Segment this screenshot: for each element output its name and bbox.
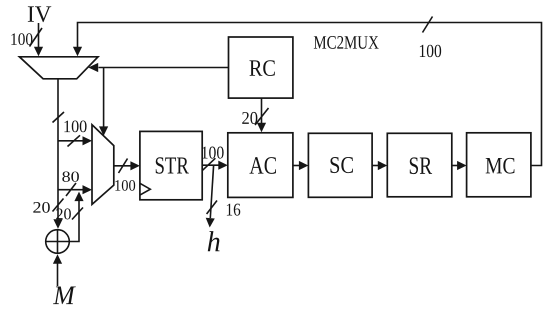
arrowhead IV into mux M1	[34, 47, 43, 57]
arrowhead SR into MC	[457, 161, 467, 170]
svg-text:100: 100	[10, 29, 33, 49]
xor gate X1	[46, 230, 70, 254]
svg-text:IV: IV	[27, 2, 52, 28]
arrowhead STR out into AC	[218, 161, 228, 170]
wire: RC to mux M1	[99, 67, 229, 69]
svg-text:20: 20	[242, 108, 259, 128]
arrowhead h branch	[206, 218, 215, 228]
svg-text:RC: RC	[249, 56, 276, 82]
svg-text:STR: STR	[154, 153, 189, 180]
wire: SC to SR	[372, 165, 378, 167]
svg-text:20: 20	[32, 200, 50, 217]
wire: STR to AC	[202, 164, 219, 166]
arrowhead into XOR top	[53, 219, 62, 229]
block SC	[308, 133, 372, 197]
svg-text:h: h	[207, 226, 221, 258]
svg-text:100: 100	[201, 142, 225, 162]
node slash 20 right	[72, 208, 83, 220]
wire: IV input	[38, 23, 40, 49]
block AC	[228, 133, 293, 198]
arrowhead branch into mux M2 top slant	[99, 126, 108, 135]
wire: RC to AC	[261, 98, 263, 123]
svg-text:MC: MC	[485, 153, 515, 179]
block RC	[229, 37, 293, 98]
arrowhead RC wire into mux M1 right slant	[88, 63, 98, 72]
arrowhead 80 into mux M2	[83, 185, 93, 194]
svg-text:M: M	[52, 280, 76, 310]
svg-text:20: 20	[55, 204, 71, 223]
arrowhead XOR out up into 80 wire	[74, 192, 83, 202]
svg-text:100: 100	[419, 42, 442, 62]
wire: top feedback MC2MUX	[78, 23, 542, 166]
arrowhead M into XOR bottom	[53, 254, 62, 263]
block SR	[387, 133, 452, 197]
node slash 20	[255, 108, 269, 125]
arrowhead 100 into mux M2	[83, 136, 93, 145]
arrowhead RC into AC	[257, 123, 266, 133]
node slash 20 left	[53, 199, 64, 212]
wire: SR to MC	[452, 165, 458, 167]
mux M2 (left trapezoid)	[92, 125, 114, 205]
svg-text:16: 16	[225, 199, 240, 219]
svg-text:AC: AC	[249, 153, 277, 180]
wire: mux M2 output to STR	[114, 165, 131, 167]
block MC	[467, 133, 531, 197]
node slash	[202, 158, 215, 171]
arrowhead mux M2 out into STR	[130, 161, 140, 170]
node slash	[119, 159, 128, 174]
svg-text:80: 80	[62, 169, 80, 186]
svg-text:MC2MUX: MC2MUX	[313, 33, 379, 54]
arrowhead feedback into mux M1	[73, 47, 82, 57]
node slash	[66, 183, 76, 196]
arrowhead SC into SR	[378, 161, 388, 170]
clock input triangle	[140, 183, 150, 195]
arrowhead AC into SC	[299, 161, 309, 170]
wire: 100 branch into mux M2	[58, 140, 83, 142]
wire: AC to SC	[293, 165, 300, 167]
wire: XOR output up into mux M2	[69, 201, 79, 242]
wire: branch down to mux M2 top	[103, 68, 105, 128]
wire: M input	[57, 264, 59, 287]
node IV slash	[30, 28, 43, 47]
node MC2MUX slash	[423, 17, 433, 33]
node slash 100	[53, 112, 65, 123]
node slash	[68, 135, 81, 146]
svg-text:SC: SC	[329, 153, 354, 179]
node slash 16	[207, 201, 217, 215]
svg-text:100: 100	[63, 116, 87, 136]
register STR	[140, 131, 202, 199]
wire: h output branch	[210, 165, 213, 218]
svg-text:100: 100	[114, 178, 136, 195]
wire: 80 branch into mux M2	[58, 189, 83, 191]
svg-text:SR: SR	[408, 153, 432, 180]
wire: mux M1 output down to XOR	[57, 79, 59, 219]
mux M1 (top trapezoid)	[19, 57, 98, 79]
